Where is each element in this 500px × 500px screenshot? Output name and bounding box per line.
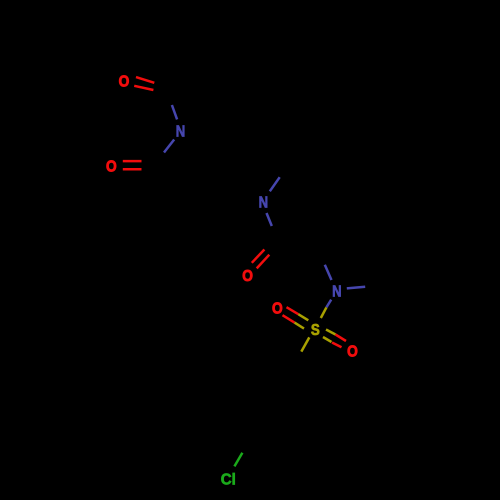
svg-text:Cl: Cl: [221, 471, 236, 489]
svg-text:N: N: [332, 284, 341, 301]
svg-text:O: O: [347, 344, 358, 361]
bond C2=O2 upper red half: [123, 160, 142, 163]
svg-text:N: N: [176, 124, 185, 141]
svg-text:N: N: [259, 195, 268, 212]
bond N2-CH3 blue half: [270, 177, 280, 191]
svg-text:O: O: [119, 74, 130, 91]
bond N1-C7 blue half: [172, 105, 177, 119]
bond S=O4 line2 red half: [283, 315, 295, 322]
svg-text:O: O: [242, 268, 253, 285]
bond Cl-C(aryl) green half: [234, 453, 242, 467]
bond C7=O1 lower red half: [134, 86, 153, 90]
bond S=O5 line1 red half: [336, 335, 347, 342]
svg-text:O: O: [106, 159, 117, 176]
svg-text:O: O: [272, 301, 283, 318]
bond S=O5 line2 yellow half: [323, 337, 332, 342]
bond S=O4 line2 yellow half: [295, 323, 305, 329]
bond N1-C2 blue half: [164, 140, 174, 153]
bond N3-CH3 blue half: [347, 287, 365, 289]
bond S-C(aryl) yellow half: [301, 337, 309, 351]
bond C10=O3 outer red half: [252, 250, 265, 263]
bond N2-C10 blue half: [267, 213, 272, 226]
bond S=O4 line1 yellow half: [298, 314, 308, 320]
bond C7=O1 upper red half: [136, 77, 154, 83]
bond S=O5 line1 yellow half: [326, 330, 336, 335]
svg-text:S: S: [311, 322, 320, 339]
bond N3-C11 blue half: [325, 265, 332, 280]
bond S=O4 line1 red half: [287, 307, 299, 314]
bond N3-S yellow half: [321, 307, 327, 318]
bond C2=O2 lower red half: [123, 168, 142, 171]
bond C10=O3 inner red half: [257, 255, 270, 269]
bond N3-S blue half: [326, 300, 331, 308]
bond S=O5 line2 red half: [332, 343, 342, 348]
